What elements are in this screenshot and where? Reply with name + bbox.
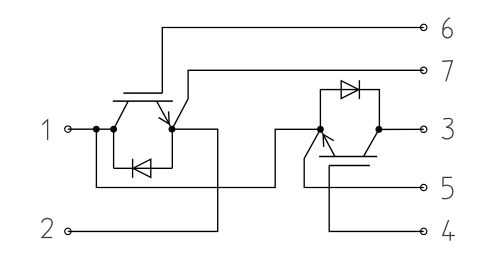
- IGBT Q1 main bar: [113, 100, 173, 102]
- IGBT Q2 main bar: [319, 156, 377, 158]
- terminal label 1: [42, 120, 47, 140]
- terminal circle pin 1: [65, 126, 71, 132]
- terminal circle pin 7: [421, 67, 427, 73]
- junction dot C (Q2 emitter node): [317, 126, 324, 133]
- wire Q2 gate down and right to pin 4: [329, 166, 424, 232]
- terminal circle pin 5: [421, 184, 427, 190]
- wire diode D1 horizontal: [114, 167, 173, 169]
- junction dot A2: [110, 126, 117, 133]
- terminal circle pin 6: [421, 24, 427, 30]
- IGBT Q2 emitter lead diagonal: [320, 129, 335, 156]
- IGBT Q1 emitter arrowhead: [159, 111, 170, 124]
- terminal circle pin 2: [65, 228, 71, 234]
- IGBT Q1 gate bar: [123, 92, 162, 94]
- wire node A1 down, bottom run, up to right emitter node: [96, 129, 320, 187]
- wire pin1 to node A: [68, 128, 114, 130]
- junction dot D (Q2 collector node): [375, 126, 382, 133]
- terminal label 6: [443, 18, 450, 31]
- diode D2 cathode bar: [358, 80, 360, 99]
- wire Q2 aux emitter to pin 5: [304, 129, 424, 187]
- terminal label 3: [442, 118, 453, 138]
- terminal circle pin 3: [421, 126, 427, 132]
- terminal label 4: [443, 220, 455, 241]
- IGBT Q2 gate bar: [329, 165, 370, 167]
- junction dot B (Q1 emitter node): [169, 126, 176, 133]
- wire diode D2 loop: [320, 90, 379, 130]
- wire diode D1 up to node B: [171, 129, 173, 168]
- diode D1 triangle: [133, 159, 151, 177]
- IGBT Q2 emitter arrowhead: [323, 134, 334, 147]
- wire node B right then down to pin 2 run: [68, 129, 218, 231]
- IGBT Q2 collector lead diagonal: [364, 129, 379, 156]
- wire pin 7 to Q1 aux emitter: [172, 70, 424, 129]
- IGBT Q1 emitter lead diagonal: [157, 101, 172, 129]
- junction dot A1: [93, 126, 100, 133]
- diode D2 triangle: [341, 81, 359, 99]
- diode D1 cathode bar: [132, 159, 134, 178]
- terminal label 7: [442, 61, 452, 82]
- terminal label 5: [442, 177, 453, 198]
- terminal label 2: [42, 218, 52, 237]
- wire node A2 down to diode D1: [113, 129, 115, 168]
- wire Q2 collector node to pin 3: [379, 128, 424, 130]
- wire gate Q1 up and right to pin 6: [162, 28, 423, 94]
- terminal circle pin 4: [421, 228, 427, 234]
- IGBT Q1 collector lead diagonal: [114, 101, 129, 129]
